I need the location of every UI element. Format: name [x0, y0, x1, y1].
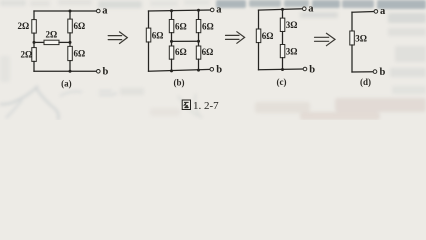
wire (a) left branch lower stub [33, 61, 35, 71]
wire (b) left branch upper [148, 11, 150, 28]
paper background [0, 0, 426, 120]
wire (b) middle branch to mid node [171, 33, 173, 46]
svg-text:2Ω: 2Ω [18, 21, 30, 31]
node (b) right mid junction [197, 40, 200, 43]
wire (c) bottom rail [259, 68, 304, 71]
svg-text:3Ω: 3Ω [286, 20, 298, 30]
wire (b) right branch to mid node [198, 33, 200, 46]
node (a) right bottom junction [69, 70, 72, 73]
node (b) middle mid junction [170, 40, 173, 43]
resistor 6Ω (b) right lower [196, 46, 213, 59]
wire (d) top rail [352, 11, 374, 14]
wire (b) bottom rail [149, 69, 211, 71]
terminal b (b) [210, 65, 222, 76]
terminal b (a) [97, 67, 109, 78]
svg-text:6Ω: 6Ω [152, 31, 164, 41]
svg-text:b: b [216, 65, 222, 76]
svg-text:6Ω: 6Ω [74, 21, 86, 31]
svg-text:6Ω: 6Ω [74, 49, 86, 59]
wire (a) top rail [34, 10, 97, 12]
wire (b) middle branch lower stub [171, 59, 173, 71]
wire (d) bottom rail [352, 71, 373, 73]
wire (a) right branch to mid node [69, 33, 71, 47]
wire (a) left branch to mid node [33, 33, 35, 48]
node (c) right top junction [281, 8, 284, 11]
resistor 6Ω (a) upper-right [68, 19, 85, 33]
wire (c) left branch upper [258, 10, 260, 29]
wire (a) right branch upper stub [69, 11, 71, 19]
arrow 2 [226, 32, 245, 44]
svg-text:2Ω: 2Ω [46, 30, 58, 40]
wire (c) right branch upper stub [282, 9, 284, 18]
resistor 2Ω (a) lower-left [21, 48, 37, 62]
svg-text:6Ω: 6Ω [175, 22, 187, 32]
svg-text:a: a [308, 3, 314, 14]
terminal b (d) [373, 67, 385, 78]
resistor 3Ω (c) upper [280, 18, 297, 31]
svg-text:b: b [380, 67, 386, 78]
svg-text:a: a [380, 6, 386, 17]
wire (c) left branch lower [258, 43, 260, 70]
wire (a) bridge right stub [59, 41, 70, 43]
node (a) right top junction [69, 10, 72, 13]
wire (b) right branch lower stub [198, 59, 200, 70]
figure caption 图 1.2-7 [182, 100, 219, 112]
resistor 3Ω (d) [350, 31, 367, 45]
resistor 3Ω (c) lower [280, 45, 297, 58]
resistor 6Ω (b) right upper [196, 20, 213, 33]
terminal a (d) [374, 6, 386, 17]
wire (b) right branch upper stub [198, 10, 200, 19]
arrow 1 [108, 32, 127, 44]
wire (b) mid tie [172, 40, 199, 42]
wire (a) right branch lower stub [69, 61, 71, 72]
wire (b) top rail [149, 10, 211, 11]
resistor 6Ω (b) middle upper [169, 20, 186, 33]
terminal a (a) [97, 6, 109, 17]
node (b) right top junction [197, 9, 200, 12]
terminal a (c) [303, 3, 315, 14]
wire (c) right branch middle [282, 32, 284, 45]
resistor 6Ω (c) left [256, 29, 273, 43]
resistor 2Ω (a) middle horizontal [44, 30, 59, 45]
terminal a (b) [210, 5, 222, 16]
node (b) middle bottom junction [170, 69, 173, 72]
svg-text:a: a [216, 5, 222, 16]
resistor 6Ω (b) left [146, 28, 163, 42]
svg-text:(b): (b) [174, 78, 185, 88]
svg-text:2Ω: 2Ω [21, 49, 33, 59]
terminal b (c) [303, 64, 315, 75]
resistor 6Ω (a) lower-right [68, 46, 85, 60]
wire (a) bridge left stub [34, 41, 44, 43]
resistor 6Ω (b) middle lower [169, 46, 186, 59]
bleed-through smudges [216, 0, 426, 9]
svg-text:6Ω: 6Ω [175, 47, 187, 57]
svg-text:1. 2-7: 1. 2-7 [193, 100, 219, 112]
wire (c) right branch lower stub [282, 58, 284, 70]
resistor 2Ω (a) upper-left [18, 20, 37, 33]
wire (c) top rail [259, 9, 303, 10]
svg-text:6Ω: 6Ω [202, 47, 214, 57]
wire (a) left branch upper stub [33, 11, 35, 20]
svg-text:(d): (d) [360, 77, 371, 87]
svg-text:3Ω: 3Ω [355, 33, 367, 43]
wire (b) middle branch upper stub [171, 11, 173, 20]
wire (d) branch upper [351, 12, 353, 31]
svg-text:b: b [103, 67, 109, 78]
svg-text:3Ω: 3Ω [286, 46, 298, 56]
node (b) right bottom junction [197, 69, 200, 72]
wire (b) left branch lower [148, 42, 150, 71]
node (c) right bottom junction [281, 68, 284, 71]
wire (d) branch lower [351, 45, 353, 72]
wire (a) bottom rail [34, 70, 97, 72]
arrow 3 [315, 33, 336, 45]
node (a) right mid junction [69, 41, 72, 44]
node (a) left mid junction [33, 41, 36, 44]
svg-text:6Ω: 6Ω [202, 22, 214, 32]
node (b) middle top junction [170, 9, 173, 12]
svg-text:(c): (c) [277, 77, 287, 87]
svg-text:(a): (a) [61, 79, 72, 89]
svg-text:a: a [102, 6, 108, 17]
svg-text:6Ω: 6Ω [262, 31, 274, 41]
svg-text:b: b [309, 64, 315, 75]
